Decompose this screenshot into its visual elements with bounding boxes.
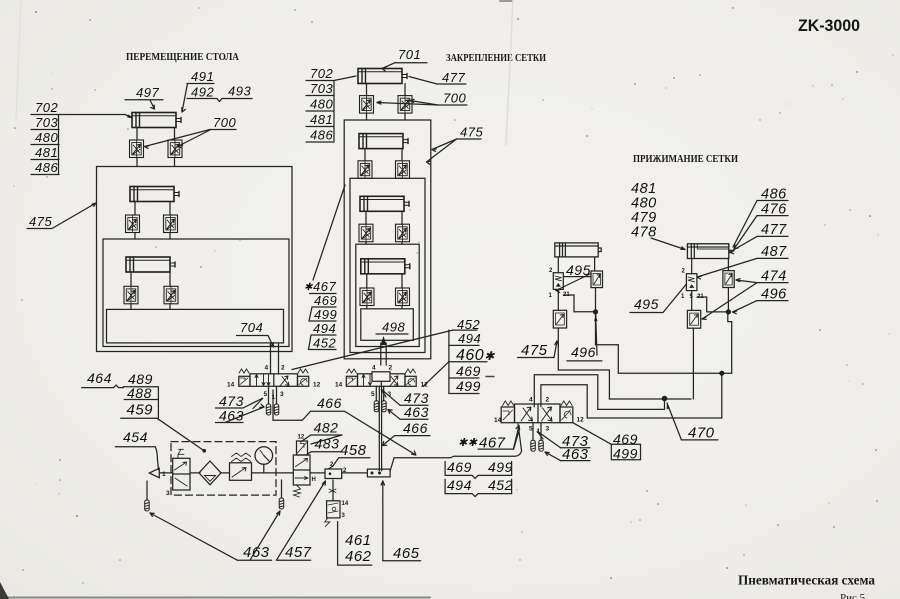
wire from stack to cylinder 497: [59, 115, 132, 118]
svg-text:454: 454: [123, 429, 148, 445]
svg-text:499: 499: [314, 307, 337, 322]
svg-text:467: 467: [313, 279, 336, 294]
vertical from right valve to dot: [595, 288, 597, 312]
junction dot 470: [662, 396, 668, 402]
solenoid valve 482/483: [293, 455, 310, 485]
svg-text:466: 466: [403, 420, 428, 436]
svg-text:458: 458: [340, 442, 367, 459]
label stack 702-486 mid: [310, 66, 333, 143]
label 465 with leader up to block1: [382, 481, 384, 561]
leader from valve V2 port12 to stack: [423, 362, 449, 387]
cylinder C701: [358, 69, 407, 84]
cylinder M2: [360, 196, 409, 211]
svg-text:✱: ✱: [304, 282, 313, 293]
svg-text:480: 480: [35, 130, 58, 145]
svg-text:475: 475: [460, 125, 483, 140]
svg-text:486: 486: [35, 160, 58, 175]
svg-text:463: 463: [404, 404, 429, 420]
cylinder M1: [359, 134, 408, 149]
svg-text:12: 12: [577, 417, 585, 424]
cylinder M3: [361, 259, 410, 274]
svg-text:452: 452: [488, 477, 513, 493]
valve pair under C497: [136, 128, 138, 141]
cylinder C3: [126, 257, 175, 272]
svg-text:1: 1: [549, 293, 553, 299]
pipe from lower valve L down and right: [558, 328, 691, 399]
label stack 702-486 left: [35, 100, 58, 175]
svg-text:3: 3: [280, 391, 284, 398]
dot R2 on line: [719, 371, 724, 376]
svg-text:12: 12: [313, 382, 321, 389]
svg-text:2: 2: [549, 268, 553, 274]
svg-text:491: 491: [191, 69, 214, 84]
svg-text:703: 703: [310, 81, 333, 96]
nested box 4: [361, 309, 414, 341]
svg-text:452: 452: [313, 336, 336, 351]
svg-text:462: 462: [345, 548, 372, 565]
svg-text:469: 469: [447, 459, 472, 475]
svg-text:2: 2: [389, 365, 393, 372]
leader from valve V1 to 452 stack: [292, 330, 453, 369]
outer pipe box: [97, 167, 293, 352]
tall outer box: [344, 120, 431, 359]
junction block1: [367, 469, 390, 477]
svg-text:480: 480: [310, 97, 333, 112]
svg-text:475: 475: [29, 214, 52, 229]
muffler A below inlet: [146, 481, 148, 500]
svg-text:14: 14: [335, 382, 343, 389]
svg-text:470: 470: [688, 425, 715, 442]
stray mark: [486, 376, 494, 378]
svg-text:14: 14: [227, 382, 235, 389]
svg-text:494: 494: [313, 321, 336, 336]
pilot valve 461/462: [332, 480, 334, 501]
leader from x467 up to box edge: [313, 185, 345, 280]
svg-text:498: 498: [382, 320, 405, 335]
svg-text:499: 499: [488, 459, 513, 475]
svg-text:1: 1: [162, 471, 166, 478]
leader 486,476 to rod tip: [733, 201, 757, 248]
muffler B below line: [281, 480, 283, 498]
inlet arrow: [149, 468, 159, 478]
lower valve R: [691, 291, 693, 311]
connecting line between valves: [563, 276, 591, 278]
valve pair under C701: [366, 84, 368, 96]
mufflers under V2: [375, 386, 377, 401]
nested box 3: [356, 244, 419, 346]
right flow valve: [591, 271, 603, 288]
svg-text:✱✱: ✱✱: [458, 437, 478, 449]
pilot line from D2 port2: [541, 373, 722, 418]
label stack 481 480 479 478: [631, 181, 657, 241]
exit pipes down to valve V1: [270, 344, 272, 374]
junction dot L1: [593, 309, 598, 314]
mid pipe box: [103, 239, 289, 347]
svg-text:486: 486: [310, 128, 333, 143]
svg-text:481: 481: [310, 112, 333, 127]
supply pipe V2 down to block: [379, 386, 381, 471]
svg-text:700: 700: [213, 115, 236, 130]
springs: [239, 369, 249, 373]
svg-text:702: 702: [310, 66, 333, 81]
label stack 464 489 488 459: [87, 370, 153, 419]
svg-text:1: 1: [681, 294, 685, 300]
junction dot R1: [726, 309, 731, 314]
svg-text:4: 4: [265, 365, 269, 372]
svg-text:461: 461: [345, 532, 372, 549]
svg-text:ПЕРЕМЕЩЕНИЕ СТОЛА: ПЕРЕМЕЩЕНИЕ СТОЛА: [126, 51, 239, 63]
svg-text:3: 3: [166, 490, 170, 497]
svg-text:463: 463: [243, 544, 270, 561]
wire 466 no.1 from V1: [273, 390, 416, 455]
filter: [199, 461, 221, 485]
svg-text:Рис.5: Рис.5: [840, 592, 866, 599]
svg-text:481: 481: [35, 145, 58, 160]
cylinder C497: [132, 113, 181, 128]
svg-text:469: 469: [456, 363, 481, 379]
left flow valve R: [686, 274, 697, 291]
svg-text:459: 459: [127, 402, 154, 419]
svg-text:482: 482: [314, 420, 339, 436]
svg-text:Пневматическая схема: Пневматическая схема: [738, 574, 875, 589]
leader 491/492 to cylinder rod: [182, 84, 188, 113]
svg-text:3: 3: [342, 513, 346, 519]
lower valve L: [557, 289, 559, 310]
svg-text:5: 5: [371, 391, 375, 398]
svg-text:3: 3: [546, 426, 550, 433]
port21 loop R to dot R1: [697, 297, 728, 312]
svg-text:488: 488: [127, 385, 152, 401]
svg-text:466: 466: [317, 395, 342, 411]
right pilot box: [298, 376, 309, 386]
pipe between dots L1,R1: [596, 312, 732, 373]
svg-text:495: 495: [634, 296, 659, 312]
cylinder L: [555, 243, 598, 257]
svg-text:497: 497: [136, 85, 159, 100]
port lines: [557, 257, 559, 273]
svg-text:475: 475: [521, 342, 548, 359]
stack x467 469 499 494 452: [304, 279, 337, 351]
svg-text:493: 493: [228, 84, 251, 99]
right flow valve R: [723, 271, 734, 288]
cylinder R: [687, 244, 728, 259]
svg-text:4: 4: [372, 365, 376, 372]
svg-text:494: 494: [447, 477, 472, 493]
svg-text:492: 492: [191, 85, 214, 100]
svg-text:487: 487: [761, 244, 787, 260]
svg-text:ZK-3000: ZK-3000: [798, 16, 860, 35]
svg-text:467: 467: [479, 435, 506, 452]
leader 495 diagonal: [556, 274, 591, 291]
dashed enclosure: [171, 442, 276, 496]
main line into D2: [390, 424, 521, 471]
label stack 486 476 477 487 474 496: [761, 187, 787, 303]
ports: [691, 259, 693, 274]
svg-text:465: 465: [393, 545, 420, 562]
nested box 2: [350, 178, 425, 352]
svg-text:14: 14: [494, 417, 502, 424]
leader 461/462: [338, 522, 372, 566]
svg-text:463: 463: [219, 408, 244, 424]
cylinder C2: [130, 187, 179, 202]
svg-text:703: 703: [35, 115, 58, 130]
paper creases: [506, 0, 513, 145]
svg-text:499: 499: [456, 378, 481, 394]
svg-text:4: 4: [529, 397, 533, 404]
regulator: [230, 463, 252, 481]
leader 487 to left valve RB: [697, 258, 757, 277]
mufflers under V1: [268, 386, 270, 404]
svg-text:464: 464: [87, 370, 112, 386]
svg-text:477: 477: [761, 222, 787, 238]
component 457 block: [325, 469, 342, 479]
svg-text:701: 701: [398, 47, 421, 62]
pipe up from right lower valve R: [692, 328, 694, 399]
svg-text:12: 12: [421, 382, 429, 389]
svg-text:469: 469: [314, 293, 337, 308]
left pilot box: [239, 376, 250, 386]
svg-text:ПРИЖИМАНИЕ СЕТКИ: ПРИЖИМАНИЕ СЕТКИ: [633, 153, 738, 165]
port21 loop to dot L1: [563, 295, 595, 312]
leader 496 to junction dot R1: [733, 301, 758, 312]
stack 452 494 460* 469 499 (right of middle group): [456, 317, 495, 394]
shut-off valve: [173, 458, 190, 490]
svg-text:702: 702: [35, 100, 58, 115]
svg-text:700: 700: [443, 91, 466, 106]
wire from stack to cylinder 701: [334, 76, 356, 81]
svg-text:704: 704: [240, 320, 263, 335]
svg-text:457: 457: [285, 544, 312, 561]
svg-text:477: 477: [442, 70, 465, 85]
svg-text:2: 2: [682, 269, 686, 275]
scan artifacts: [0, 597, 430, 599]
svg-text:2: 2: [281, 365, 285, 372]
svg-text:H: H: [312, 477, 316, 483]
svg-text:5: 5: [264, 391, 268, 398]
leader 478 to left cylinder R: [651, 238, 685, 250]
inner pipe box: [107, 309, 284, 343]
supply line from D2 port4 staircase: [534, 375, 664, 410]
left flow valve (vertical): [553, 273, 563, 290]
svg-text:ЗАКРЕПЛЕНИЕ СЕТКИ: ЗАКРЕПЛЕНИЕ СЕТКИ: [446, 52, 546, 64]
svg-text:494: 494: [458, 331, 481, 346]
mufflers under D2: [532, 423, 534, 441]
svg-text:14: 14: [342, 501, 349, 507]
svg-text:483: 483: [315, 436, 340, 452]
svg-text:496: 496: [571, 344, 596, 360]
svg-text:2: 2: [546, 397, 550, 404]
vertical from right valve R to dot: [727, 288, 729, 312]
pressure gauge: [255, 447, 273, 465]
leader 474 two branches: [736, 280, 757, 283]
leader 477 to cylinder right: [730, 236, 757, 252]
